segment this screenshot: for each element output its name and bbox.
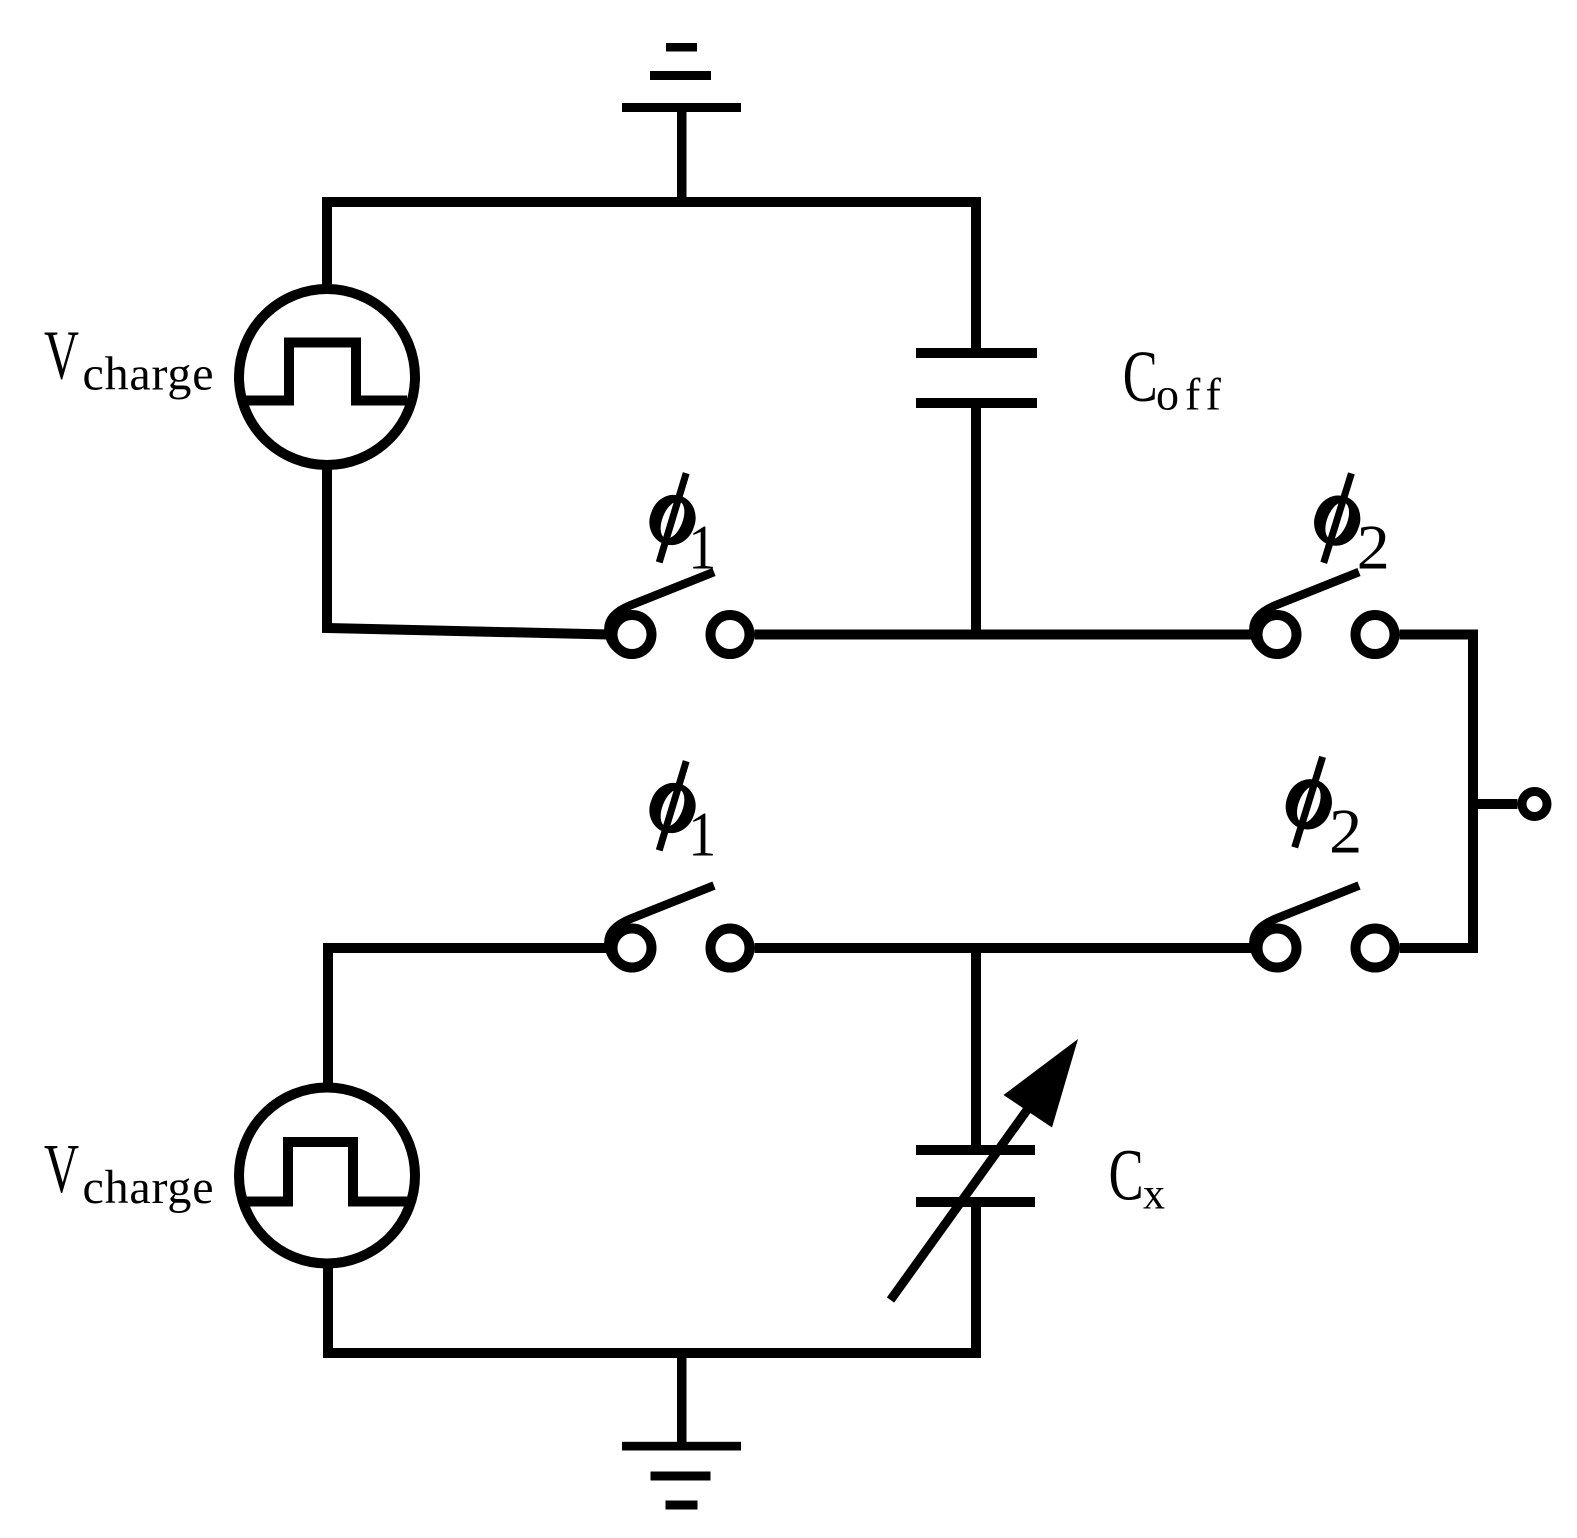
svg-text:C: C	[1123, 336, 1158, 417]
output terminal node	[1522, 792, 1547, 817]
svg-text:V: V	[44, 318, 79, 395]
switch S4 phi2 (bottom row)	[1258, 929, 1297, 968]
label phi2 (top)	[1314, 495, 1360, 545]
output stub wire	[1473, 799, 1518, 809]
svg-text:1: 1	[688, 800, 716, 870]
label V_charge (bottom)	[44, 1131, 214, 1214]
wire from Vcharge bottom down then right to switch phi1	[327, 462, 609, 635]
svg-text:2: 2	[1329, 797, 1362, 867]
wire from Vcharge bottom to bottom horizontal wire	[323, 1260, 333, 1353]
svg-text:1: 1	[688, 513, 716, 583]
wire between phi1 and phi2 (top row)	[755, 630, 1253, 640]
wire phi2 to right vertical (bottom row)	[1400, 943, 1479, 953]
label C_off	[1123, 336, 1227, 420]
ground GND bottom	[622, 1353, 741, 1510]
switch S2 phi2 (top row)	[1258, 615, 1297, 654]
wire right vertical bus	[1468, 630, 1478, 954]
switch S1 phi1 (top row)	[613, 615, 652, 654]
ground GND top (inverted, above circuit)	[622, 43, 741, 204]
arrow head of variable capacitor	[1004, 1039, 1079, 1128]
wire left vertical from top wire to Vcharge top	[322, 202, 332, 292]
switch S3 phi1 (bottom row)	[613, 929, 652, 968]
wire left vertical from bottom row to Vcharge (bottom)	[323, 948, 333, 1092]
label phi2 (bottom)	[1286, 779, 1332, 829]
svg-text:x: x	[1143, 1169, 1165, 1218]
svg-text:2: 2	[1357, 512, 1390, 582]
wire from Cx bottom to bottom horizontal wire	[971, 1202, 981, 1353]
wire from lower-left loop corner to phi1 (bottom row)	[328, 948, 609, 953]
arrow shaft of variable capacitor	[891, 1085, 1046, 1300]
capacitor C_off	[916, 348, 1037, 358]
label V_charge (top)	[44, 318, 214, 401]
pulse source V_charge (top)	[239, 289, 415, 465]
label C_x	[1109, 1134, 1165, 1218]
svg-text:off: off	[1156, 369, 1227, 420]
wire bottom horizontal net	[323, 1348, 981, 1358]
svg-text:V: V	[44, 1131, 79, 1208]
label phi1 (top)	[649, 495, 695, 545]
svg-text:charge: charge	[83, 1161, 215, 1214]
label phi1 (bottom)	[649, 783, 695, 833]
svg-text:charge: charge	[83, 348, 215, 401]
pulse source V_charge (bottom)	[239, 1088, 415, 1264]
svg-text:C: C	[1109, 1134, 1144, 1215]
variable capacitor C_x plates	[916, 1145, 1035, 1155]
wire from C_off bottom to top row wire	[971, 403, 981, 639]
wire top horizontal net	[322, 197, 981, 207]
wire between phi1 and phi2 (bottom row)	[755, 943, 1253, 953]
capacitor C_off branch: vertical from top wire	[971, 202, 981, 353]
wire from bottom row down to Cx	[971, 948, 981, 1150]
wire phi2 to right vertical (top row)	[1400, 630, 1479, 640]
